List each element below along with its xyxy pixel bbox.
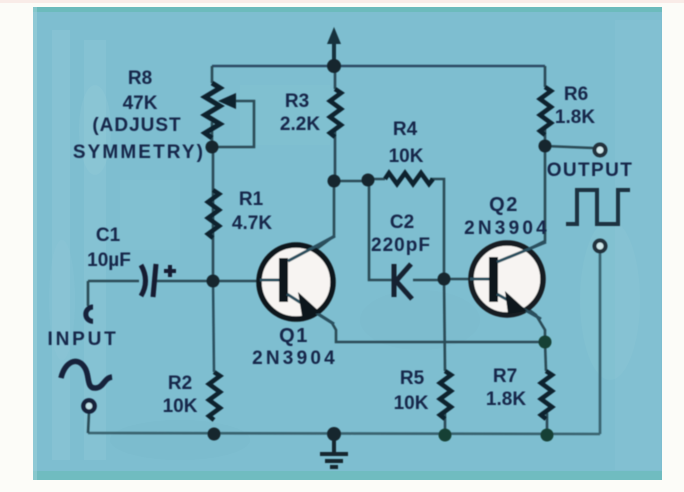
transistor Q2 — [470, 242, 546, 319]
wire C1 to Q1 base — [156, 280, 281, 283]
svg-text:10µF: 10µF — [87, 250, 131, 271]
wire R6 bottom — [544, 127, 547, 146]
wire R8 top lead — [211, 66, 214, 83]
transistor Q1 — [259, 236, 335, 324]
wire R2 top lead — [213, 278, 214, 372]
svg-text:R2: R2 — [168, 373, 192, 394]
wire top rail — [212, 65, 545, 68]
wire R3 branch — [334, 66, 337, 89]
wire Q2 base — [444, 278, 491, 281]
wire R4 right lead — [430, 179, 444, 279]
wire R8 to junction A — [211, 122, 214, 148]
R8 wiper arrow — [218, 93, 236, 109]
wire C2 right — [413, 279, 444, 282]
svg-text:(ADJUST: (ADJUST — [92, 115, 181, 136]
svg-text:Q1: Q1 — [279, 325, 309, 347]
svg-text:10K: 10K — [394, 393, 429, 414]
resistor R6 — [540, 87, 551, 135]
svg-text:Q2: Q2 — [489, 194, 519, 216]
node OUTPUT upper terminal — [595, 145, 606, 156]
wire output stub — [545, 146, 593, 148]
junction emitter node — [539, 336, 552, 349]
svg-text:10K: 10K — [389, 146, 424, 167]
junction R3 bottom — [328, 175, 341, 188]
node OUTPUT lower terminal — [595, 241, 606, 252]
wire R7 top lead — [545, 342, 546, 371]
INPUT sine symbol — [61, 361, 112, 388]
resistor R8 — [205, 83, 220, 138]
capacitor C2 — [394, 264, 412, 299]
resistor R7 — [541, 371, 552, 419]
junction R4/C2 left — [362, 174, 375, 187]
wire R4 left lead — [368, 178, 385, 181]
svg-text:R5: R5 — [400, 368, 425, 389]
wire R6 top lead — [544, 66, 547, 87]
wire Q2 collector riser — [521, 146, 545, 253]
junction ground node — [327, 427, 341, 441]
wire Q2 emitter — [520, 303, 545, 342]
wire input lower drop — [88, 412, 89, 433]
svg-text:2N3904: 2N3904 — [252, 348, 338, 369]
svg-text:C2: C2 — [390, 212, 414, 233]
junction Q1 base node — [207, 275, 220, 288]
resistor R5 — [440, 371, 451, 419]
svg-text:2.2K: 2.2K — [280, 114, 320, 135]
svg-text:R4: R4 — [393, 119, 418, 140]
svg-text:220pF: 220pF — [371, 235, 431, 256]
capacitor C1 — [141, 264, 156, 297]
power arrow — [327, 27, 341, 62]
junction R6 output node — [539, 140, 552, 153]
wire C2 left — [369, 179, 392, 280]
svg-text:C1: C1 — [96, 225, 121, 246]
wire input drop — [87, 281, 90, 306]
junction R5 ground — [439, 429, 452, 442]
svg-text:R3: R3 — [285, 91, 309, 112]
OUTPUT square wave icon — [566, 190, 630, 224]
svg-text:2N3904: 2N3904 — [464, 218, 550, 239]
wire R5 branch — [444, 279, 445, 371]
svg-text:R6: R6 — [564, 84, 588, 105]
svg-text:47K: 47K — [123, 93, 158, 114]
wire Q1 emitter run — [300, 303, 545, 342]
wire output return riser — [599, 253, 602, 434]
wire node link — [335, 180, 368, 183]
node INPUT upper terminal — [86, 307, 93, 321]
junction R2 ground — [208, 428, 221, 441]
svg-text:4.7K: 4.7K — [232, 213, 272, 234]
svg-text:1.8K: 1.8K — [486, 389, 526, 410]
resistor R3 — [330, 89, 341, 137]
ground — [320, 434, 348, 467]
svg-text:OUTPUT: OUTPUT — [547, 160, 634, 181]
wire R8 wiper loop — [214, 101, 254, 147]
wire Q1 collector — [310, 181, 334, 254]
wire bottom rail — [88, 433, 600, 434]
svg-text:R8: R8 — [128, 68, 152, 89]
svg-text:R7: R7 — [493, 366, 517, 387]
resistor R4 (horizontal) — [385, 173, 433, 184]
C1 plus sign — [164, 265, 176, 277]
junction Q2 base node — [438, 273, 451, 286]
svg-text:INPUT: INPUT — [48, 329, 119, 350]
wire input line — [88, 280, 139, 283]
resistor R2 — [209, 372, 220, 420]
wire R3 bottom — [334, 130, 337, 181]
svg-text:10K: 10K — [163, 396, 198, 417]
node INPUT lower terminal — [83, 400, 94, 411]
junction R7 ground — [541, 429, 554, 442]
wire R5 bottom — [444, 411, 447, 435]
wire R7 bottom — [546, 413, 549, 435]
junction power rail — [327, 59, 341, 73]
svg-text:1.8K: 1.8K — [555, 107, 595, 128]
svg-text:R1: R1 — [239, 189, 264, 210]
resistor R1 — [208, 190, 219, 238]
svg-text:SYMMETRY): SYMMETRY) — [73, 142, 205, 163]
junction R8 bottom — [206, 141, 219, 154]
wire R1 leads — [212, 147, 215, 281]
